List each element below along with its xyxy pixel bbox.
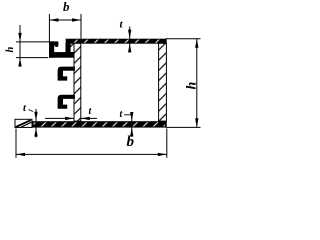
dimension h left: extension line top	[16, 41, 49, 43]
dimension h left: extension line bottom	[16, 57, 48, 59]
top hook tab	[49, 42, 58, 47]
dimension h right: extension line bottom	[166, 126, 201, 128]
dimension t top: lower arrow (pointing up)	[128, 43, 131, 52]
left web	[74, 43, 81, 121]
dimension h left: dimension line	[19, 25, 21, 65]
leader t right	[124, 114, 132, 116]
middle hook	[58, 67, 75, 80]
svg-text:b: b	[63, 0, 70, 14]
dimension h left: top arrow (outside, pointing down)	[18, 33, 21, 42]
dimension t web: right arrow (pointing left)	[81, 117, 90, 120]
top hook riser	[66, 43, 74, 52]
dimension b top: left arrow	[49, 18, 58, 21]
dimension b top: extension line left	[48, 14, 50, 42]
dimension t right flange: upper arrow	[130, 112, 133, 121]
dimension b top: dimension line	[49, 19, 81, 21]
dimension t web: left arrow (pointing right)	[65, 117, 74, 120]
dimension b top: extension line right	[80, 14, 82, 39]
top hook lip	[49, 42, 53, 58]
svg-text:h: h	[185, 82, 200, 90]
dimension b bottom: dimension line	[16, 153, 167, 155]
dimension h left: bottom arrow (outside, pointing up)	[18, 58, 21, 67]
dimension h right: top arrow	[195, 39, 198, 48]
bottom flange	[15, 122, 166, 127]
dimension h right: extension line top	[166, 38, 201, 40]
dimension t web: right line	[81, 117, 97, 119]
bottom hook	[58, 95, 75, 108]
dimension t right flange: dimension line	[131, 112, 133, 137]
leader t left	[29, 110, 34, 112]
left square boss	[15, 119, 32, 127]
right web	[159, 43, 167, 121]
dimension b bottom: extension line right	[166, 129, 168, 158]
dimension t left flange: lower arrow	[34, 128, 37, 137]
top flange	[66, 39, 166, 43]
dimension t web: left line	[45, 117, 74, 119]
dimension h right: dimension line	[196, 39, 198, 128]
dimension b bottom: right arrow	[158, 153, 167, 156]
dimension t right flange: lower arrow	[130, 127, 133, 136]
dimension h right: bottom arrow	[195, 118, 198, 127]
dimension t top: upper arrow (pointing down)	[128, 30, 131, 39]
dimension b bottom: left arrow	[16, 153, 25, 156]
dimension t top: dimension line	[129, 27, 131, 53]
dimension t left flange: dimension line	[35, 109, 37, 138]
dimension b bottom: extension line left	[15, 129, 17, 158]
dimension b top: right arrow	[72, 18, 81, 21]
svg-text:h: h	[5, 47, 16, 53]
top hook bar	[49, 53, 74, 58]
dimension t left flange: upper arrow	[34, 112, 37, 121]
